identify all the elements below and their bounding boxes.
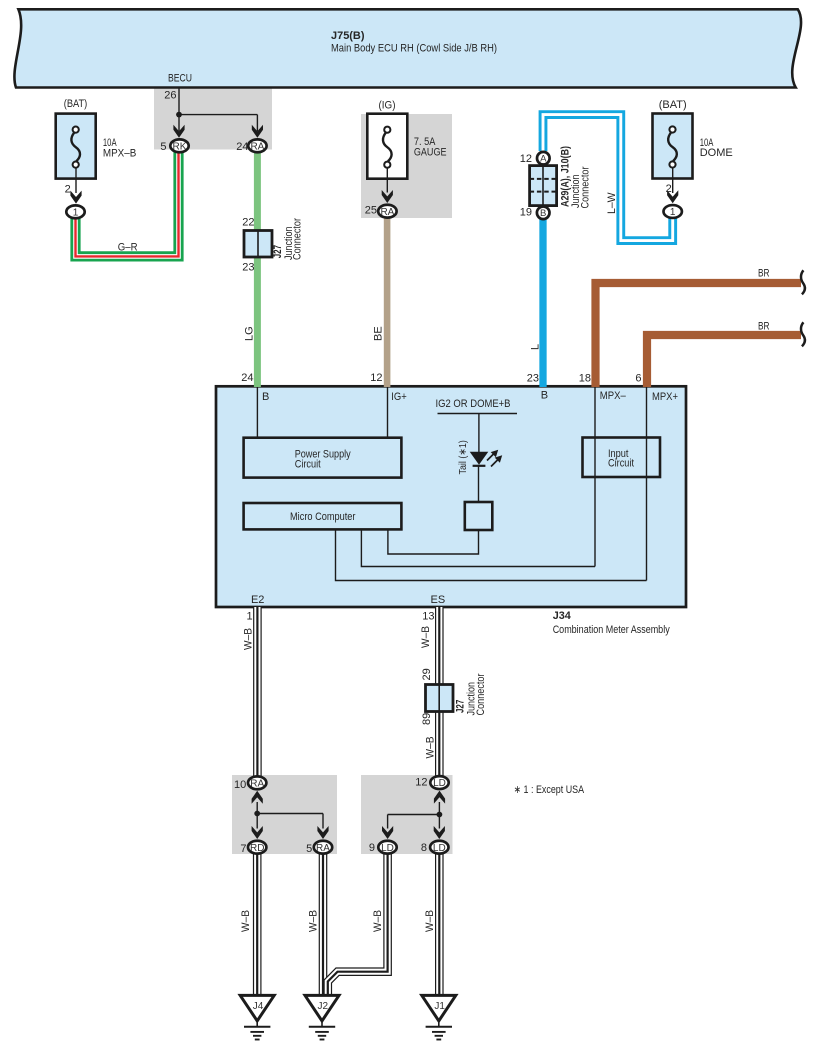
- svg-text:1: 1: [246, 610, 252, 622]
- svg-text:5: 5: [306, 843, 312, 855]
- svg-text:∗ 1 : Except USA: ∗ 1 : Except USA: [514, 784, 585, 796]
- svg-text:B: B: [262, 391, 269, 403]
- svg-text:Connector: Connector: [292, 218, 304, 260]
- svg-text:ES: ES: [431, 594, 446, 606]
- svg-text:B: B: [540, 208, 546, 219]
- svg-text:(BAT): (BAT): [64, 98, 88, 110]
- svg-text:IG2 OR DOME+B: IG2 OR DOME+B: [436, 398, 511, 410]
- svg-text:RA: RA: [250, 778, 264, 789]
- svg-text:RD: RD: [250, 843, 264, 854]
- svg-text:1: 1: [73, 207, 79, 218]
- svg-text:(IG): (IG): [379, 100, 396, 112]
- svg-text:W–B: W–B: [424, 910, 436, 932]
- svg-text:Main Body ECU RH (Cowl Side J/: Main Body ECU RH (Cowl Side J/B RH): [331, 43, 497, 55]
- svg-text:18: 18: [579, 373, 591, 385]
- svg-text:MPX–: MPX–: [600, 390, 627, 402]
- svg-text:J34: J34: [553, 610, 572, 622]
- svg-text:Circuit: Circuit: [608, 458, 634, 470]
- svg-text:J4: J4: [253, 1001, 264, 1012]
- svg-text:89: 89: [421, 713, 433, 725]
- svg-text:10: 10: [234, 779, 246, 791]
- svg-text:1: 1: [670, 207, 676, 218]
- svg-text:Connector: Connector: [475, 673, 487, 715]
- svg-text:22: 22: [242, 217, 254, 229]
- svg-text:Connector: Connector: [580, 166, 592, 208]
- svg-text:9: 9: [369, 842, 375, 854]
- svg-text:MPX+: MPX+: [652, 391, 678, 403]
- svg-text:G–R: G–R: [118, 241, 138, 253]
- svg-text:(BAT): (BAT): [659, 99, 687, 111]
- svg-text:24: 24: [236, 141, 248, 153]
- svg-text:L–W: L–W: [606, 192, 618, 214]
- svg-text:LD: LD: [433, 843, 446, 854]
- svg-text:A: A: [540, 154, 547, 165]
- svg-text:GAUGE: GAUGE: [414, 146, 447, 158]
- svg-text:J2: J2: [318, 1001, 329, 1012]
- svg-text:24: 24: [241, 372, 253, 384]
- svg-text:BR: BR: [758, 321, 770, 333]
- svg-text:J75(B): J75(B): [331, 30, 365, 42]
- svg-text:25: 25: [365, 205, 377, 217]
- svg-text:W–B: W–B: [372, 910, 384, 932]
- svg-text:26: 26: [164, 90, 176, 102]
- svg-text:W–B: W–B: [240, 910, 252, 932]
- svg-text:12: 12: [370, 372, 382, 384]
- svg-text:DOME: DOME: [700, 147, 733, 159]
- svg-text:Combination Meter Assembly: Combination Meter Assembly: [553, 624, 670, 636]
- svg-text:7: 7: [240, 843, 246, 855]
- svg-text:6: 6: [635, 373, 641, 385]
- svg-text:W–B: W–B: [307, 910, 319, 932]
- svg-text:RK: RK: [173, 141, 187, 152]
- svg-text:5: 5: [160, 141, 166, 153]
- svg-text:J1: J1: [434, 1001, 445, 1012]
- svg-text:19: 19: [520, 207, 532, 219]
- svg-text:W–B: W–B: [424, 737, 436, 759]
- svg-text:LD: LD: [381, 843, 394, 854]
- svg-text:Circuit: Circuit: [295, 458, 321, 470]
- svg-text:8: 8: [421, 842, 427, 854]
- svg-text:L: L: [530, 344, 542, 350]
- svg-text:23: 23: [242, 261, 254, 273]
- svg-text:Tail (∗1): Tail (∗1): [457, 440, 469, 474]
- svg-text:W–B: W–B: [420, 626, 432, 648]
- svg-text:13: 13: [422, 610, 434, 622]
- svg-text:LD: LD: [433, 778, 446, 789]
- svg-text:2: 2: [666, 183, 672, 195]
- svg-text:B: B: [541, 390, 548, 402]
- svg-text:RA: RA: [316, 843, 330, 854]
- svg-text:12: 12: [415, 777, 427, 789]
- svg-text:RA: RA: [250, 141, 264, 152]
- svg-text:12: 12: [520, 153, 532, 165]
- svg-text:2: 2: [65, 183, 71, 195]
- svg-text:W–B: W–B: [243, 628, 255, 650]
- svg-text:23: 23: [527, 372, 539, 384]
- svg-text:BE: BE: [372, 326, 384, 341]
- svg-text:29: 29: [421, 668, 433, 680]
- svg-text:E2: E2: [251, 594, 264, 606]
- svg-text:BECU: BECU: [168, 72, 192, 84]
- svg-text:IG+: IG+: [391, 391, 407, 403]
- svg-text:MPX–B: MPX–B: [103, 148, 136, 160]
- svg-text:Micro Computer: Micro Computer: [290, 511, 356, 523]
- svg-text:BR: BR: [758, 268, 770, 280]
- svg-text:LG: LG: [244, 326, 256, 341]
- svg-text:RA: RA: [380, 207, 394, 218]
